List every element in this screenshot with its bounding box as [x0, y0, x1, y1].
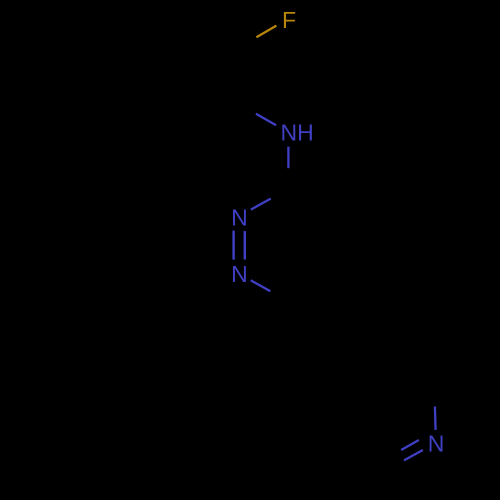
- bond N2=N1 right line (double bond): [244, 231, 246, 259]
- bond C3'-N3 (nitrogen half, vertical): [434, 407, 437, 430]
- svg-text:N: N: [231, 261, 248, 287]
- bond N1-C6 (nitrogen half): [251, 280, 271, 291]
- bond N3=C2' inner line (nitrogen half of double bond): [404, 450, 423, 460]
- svg-text:F: F: [282, 7, 296, 33]
- svg-text:NH: NH: [281, 120, 314, 146]
- bond N3=C2' outer line (nitrogen half of double bond): [401, 440, 419, 450]
- bond F-C1 (fluorine half, gold): [256, 26, 276, 38]
- svg-text:N: N: [428, 431, 445, 457]
- bond N2-C3 (nitrogen half): [251, 199, 271, 210]
- bond NH-C3 (nitrogen half, vertical): [287, 147, 289, 169]
- svg-text:N: N: [231, 205, 248, 231]
- bond C2-NH (nitrogen half): [256, 114, 276, 126]
- bond N2=N1 left line (double bond): [232, 231, 234, 260]
